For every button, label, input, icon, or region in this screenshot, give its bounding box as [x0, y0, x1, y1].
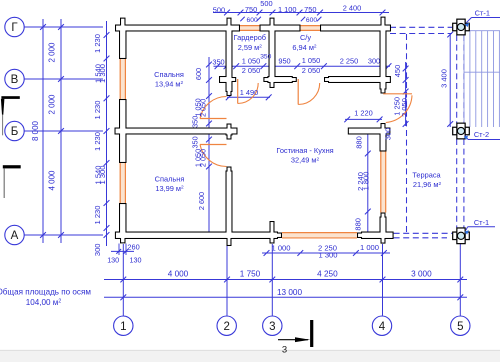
svg-text:750: 750 — [245, 5, 257, 14]
svg-text:3: 3 — [269, 321, 275, 333]
svg-text:1 100: 1 100 — [278, 5, 297, 14]
svg-text:300: 300 — [93, 243, 102, 256]
svg-text:2 000: 2 000 — [47, 94, 56, 115]
svg-text:2 600: 2 600 — [197, 192, 206, 210]
svg-text:950: 950 — [278, 57, 290, 66]
svg-text:32,49 м2: 32,49 м2 — [291, 156, 320, 165]
svg-text:1 050: 1 050 — [302, 56, 321, 65]
svg-text:300: 300 — [368, 57, 380, 66]
svg-text:13,99 м2: 13,99 м2 — [155, 184, 184, 193]
svg-text:300: 300 — [384, 128, 393, 141]
svg-text:2 050: 2 050 — [302, 66, 321, 75]
svg-text:8 000: 8 000 — [31, 120, 40, 141]
svg-text:2 050: 2 050 — [242, 66, 261, 75]
svg-text:600: 600 — [247, 17, 258, 24]
svg-text:Общая площадь по осям: Общая площадь по осям — [0, 288, 91, 297]
svg-text:104,00 м2: 104,00 м2 — [26, 298, 62, 307]
svg-text:Спальня: Спальня — [154, 70, 184, 79]
svg-text:4: 4 — [379, 321, 386, 333]
svg-text:А: А — [11, 230, 19, 242]
svg-text:1 230: 1 230 — [93, 34, 102, 53]
svg-text:130: 130 — [107, 255, 119, 264]
svg-text:1 300: 1 300 — [98, 165, 107, 184]
svg-text:350: 350 — [191, 136, 200, 148]
svg-text:Терраса: Терраса — [412, 171, 441, 180]
svg-text:4 000: 4 000 — [47, 170, 56, 191]
svg-text:1 300: 1 300 — [98, 64, 107, 83]
svg-text:3 000: 3 000 — [411, 270, 432, 279]
svg-text:2 000: 2 000 — [47, 42, 56, 63]
svg-text:1 220: 1 220 — [354, 109, 373, 118]
svg-text:13 000: 13 000 — [277, 288, 302, 297]
svg-text:С/у: С/у — [300, 33, 311, 42]
svg-text:260: 260 — [127, 242, 139, 251]
svg-text:2 250: 2 250 — [340, 57, 359, 66]
svg-text:1 300: 1 300 — [318, 251, 337, 260]
svg-text:880: 880 — [354, 218, 363, 231]
svg-text:600: 600 — [306, 17, 317, 24]
svg-text:Ст-1: Ст-1 — [474, 218, 489, 227]
svg-text:1 750: 1 750 — [240, 270, 261, 279]
svg-text:6,94 м2: 6,94 м2 — [292, 43, 317, 52]
svg-text:350: 350 — [260, 54, 271, 61]
svg-text:2 050: 2 050 — [199, 149, 208, 167]
svg-text:3 400: 3 400 — [439, 69, 448, 88]
svg-text:Б: Б — [11, 126, 19, 138]
svg-text:600: 600 — [194, 68, 203, 80]
svg-text:Ст-2: Ст-2 — [474, 130, 489, 139]
svg-text:500: 500 — [213, 5, 225, 14]
svg-text:Спальня: Спальня — [155, 174, 185, 183]
svg-text:2,59 м2: 2,59 м2 — [238, 43, 263, 52]
svg-text:2 050: 2 050 — [400, 98, 409, 117]
svg-text:350: 350 — [191, 116, 200, 128]
svg-text:Ст-1: Ст-1 — [475, 8, 490, 17]
svg-text:2 400: 2 400 — [343, 3, 362, 12]
svg-text:350: 350 — [212, 57, 224, 66]
svg-text:1 230: 1 230 — [93, 100, 102, 119]
svg-text:1 050: 1 050 — [242, 57, 261, 66]
svg-text:4 250: 4 250 — [317, 270, 338, 279]
svg-text:Г: Г — [11, 22, 18, 34]
svg-text:880: 880 — [355, 136, 364, 149]
svg-text:В: В — [11, 74, 19, 86]
svg-text:21,96 м2: 21,96 м2 — [413, 180, 442, 189]
svg-text:2: 2 — [223, 321, 229, 333]
svg-text:4 000: 4 000 — [168, 270, 189, 279]
svg-text:1 230: 1 230 — [93, 205, 102, 224]
svg-text:5: 5 — [457, 321, 463, 333]
svg-text:1 800: 1 800 — [361, 172, 370, 191]
svg-text:3: 3 — [282, 345, 287, 356]
svg-text:1 000: 1 000 — [360, 243, 379, 252]
svg-text:Гостиная - Кухня: Гостиная - Кухня — [276, 146, 333, 155]
svg-text:450: 450 — [393, 65, 402, 78]
svg-text:1: 1 — [120, 321, 126, 333]
svg-text:13,94 м2: 13,94 м2 — [155, 79, 184, 88]
svg-text:1 490: 1 490 — [240, 88, 259, 97]
svg-text:1 000: 1 000 — [271, 243, 290, 252]
svg-text:130: 130 — [130, 255, 142, 264]
svg-text:1 230: 1 230 — [93, 132, 102, 151]
svg-text:500: 500 — [260, 0, 272, 8]
svg-text:Гардероб: Гардероб — [234, 33, 267, 42]
svg-text:750: 750 — [304, 5, 316, 14]
svg-text:2 050: 2 050 — [199, 99, 208, 117]
